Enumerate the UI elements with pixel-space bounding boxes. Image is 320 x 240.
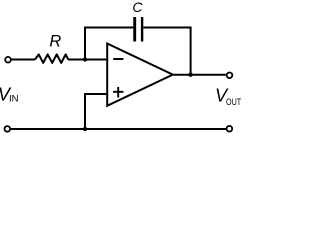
wire bottom rail [11,128,226,130]
wire feedback vertical left [84,28,86,60]
svg-text:IN: IN [9,94,19,104]
wire feedback vertical right [190,27,192,75]
wire feedback top right [143,27,190,29]
svg-text:OUT: OUT [226,97,242,107]
capacitor C left plate [133,17,136,42]
minus sign (inverting input) [113,58,123,60]
wire resistor to inverting input [68,59,106,61]
output terminal (Vout) [227,73,233,79]
resistor R [35,54,68,63]
bottom-right terminal [227,126,233,132]
capacitor C right plate [141,17,143,42]
node junction R / feedback [83,57,87,61]
node junction bottom rail [83,127,87,131]
op-amp U1 [107,44,173,106]
wire Vin to resistor [12,59,36,61]
wire feedback top left [84,27,133,29]
svg-text:C: C [132,0,143,15]
node junction output / feedback [188,73,192,77]
svg-text:R: R [49,33,61,51]
wire op-amp output [174,74,226,76]
input terminal (Vin) [5,57,11,63]
wire non-inverting input vertical [84,93,86,129]
bottom-left terminal [5,126,11,132]
plus sign (non-inverting input) [113,87,124,98]
wire non-inverting input horizontal [85,93,106,95]
